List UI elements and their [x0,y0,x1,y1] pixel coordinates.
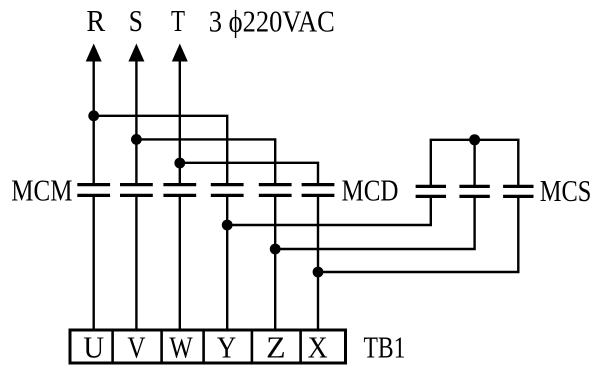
node T junction dot [174,158,185,169]
wire MCD contact b to terminal Z [274,197,276,331]
phase T arrow [172,44,188,62]
wire MCD contact c to terminal X [317,197,319,331]
terminal block divider V/W [160,330,163,363]
phase S arrow [128,44,144,62]
contactor MCM contact a [77,185,110,196]
node Z junction dot [270,244,281,255]
node Y junction dot [222,220,233,231]
contactor MCS contact a [416,186,446,196]
contactor MCD contact b [259,185,292,196]
svg-text:MCM: MCM [11,173,72,208]
wire MCM contact a to terminal U [92,197,94,331]
svg-text:S: S [129,3,143,38]
svg-text:T: T [171,3,185,38]
contactor MCD contact c [302,185,335,196]
contactor MCS contact c [503,186,533,196]
terminal block divider U/V [111,330,114,363]
terminal block divider Z/X [299,330,302,363]
contactor MCM contact b [120,185,153,196]
wire MCS star bus [431,140,519,185]
wire node Z to MCS contact b [275,198,474,249]
node R junction dot [88,110,99,121]
node S junction dot [131,134,142,145]
wire MCM contact b to terminal V [135,197,137,331]
svg-text:MCS: MCS [540,173,592,208]
wire MCD contact a to terminal Y [226,197,228,331]
contactor MCS contact b [459,186,489,196]
wire MCM contact c to terminal W [179,197,181,331]
svg-text:TB1: TB1 [364,330,406,365]
terminal block divider W/Y [202,330,205,363]
terminal block divider Y/Z [251,330,254,363]
wire S vertical (arrow to MCM contact) [135,52,137,183]
svg-text:V: V [127,330,146,365]
terminal block TB1 outline [70,330,346,363]
wire MCS contact b top lead [473,140,475,185]
wire node Y to MCS contact a [227,198,431,225]
phase R arrow [86,44,102,62]
wire T branch to MCD contact 3 [180,163,318,183]
wire node X to MCS contact c [318,198,518,272]
node star point junction dot [469,134,480,145]
svg-text:MCD: MCD [342,173,399,208]
wire S branch to MCD contact 2 [136,139,275,183]
svg-text:Z: Z [266,330,286,365]
node X junction dot [313,267,324,278]
wire R branch to MCD contact 1 [94,116,228,183]
svg-text:W: W [169,330,193,365]
contactor MCM contact c [163,185,196,196]
svg-text:Y: Y [217,330,236,365]
svg-text:X: X [308,330,328,365]
svg-text:R: R [86,3,105,38]
wire T vertical (arrow to MCM contact) [179,52,181,183]
svg-text:3 ϕ220VAC: 3 ϕ220VAC [209,4,335,39]
contactor MCD contact a [211,185,244,196]
wire R vertical (arrow to MCM contact) [92,52,94,183]
svg-text:U: U [83,330,104,365]
